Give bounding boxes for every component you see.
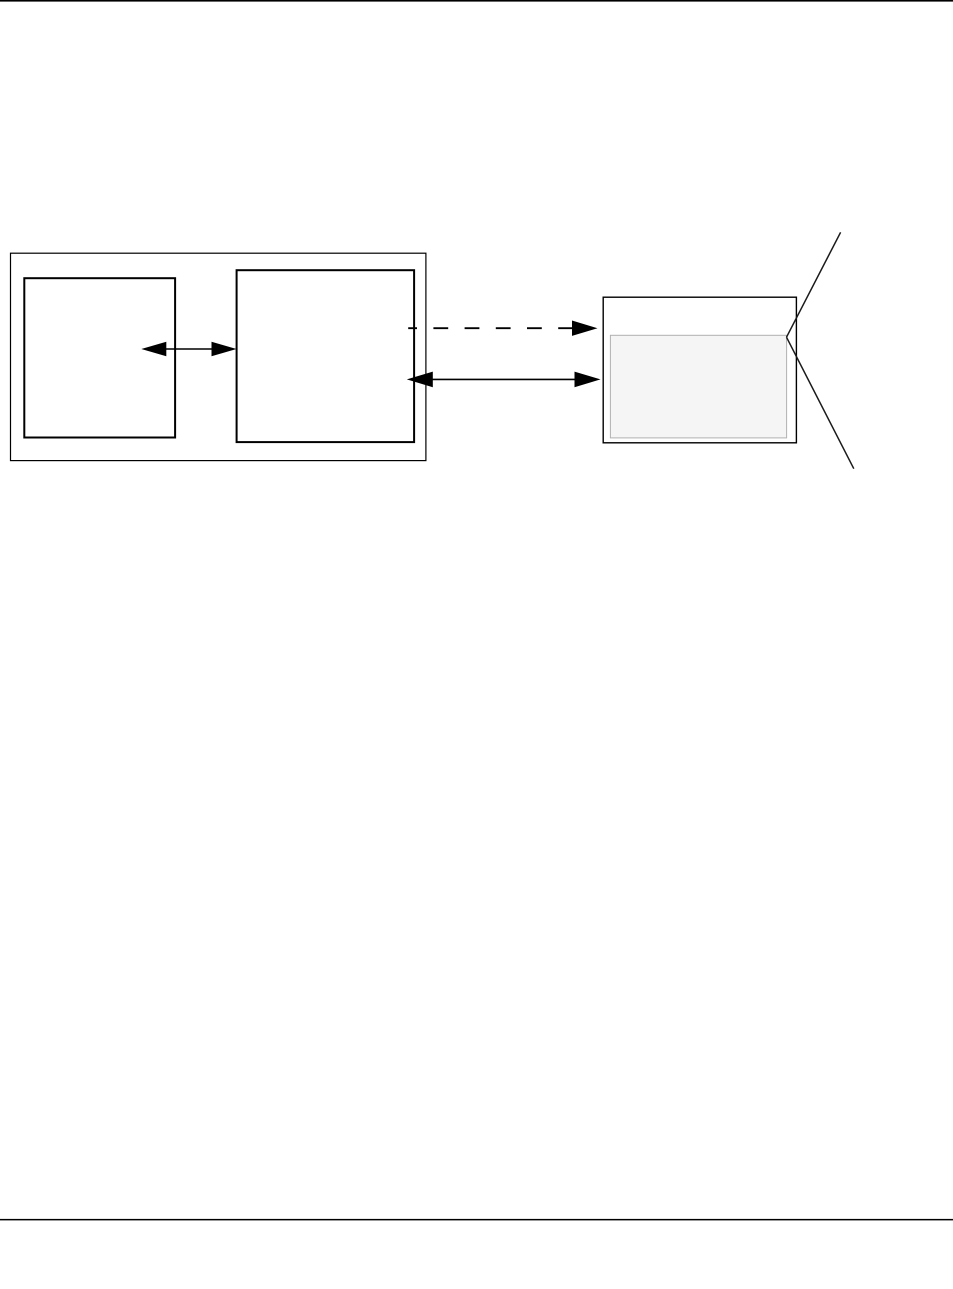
header rule (0, 0, 953, 2)
left inner box (24, 278, 175, 437)
antenna beam upper diagonal (787, 232, 841, 337)
dashed arrow: middle box to right box (408, 321, 597, 336)
middle inner box (237, 270, 415, 442)
double arrow: middle box to right box (407, 372, 601, 388)
antenna beam lower diagonal (787, 337, 854, 469)
double arrow: left box to middle box (141, 342, 236, 357)
footer rule (0, 1219, 953, 1221)
outer enclosure box (11, 253, 426, 460)
right device box (603, 297, 796, 443)
gray inset panel (610, 335, 786, 438)
